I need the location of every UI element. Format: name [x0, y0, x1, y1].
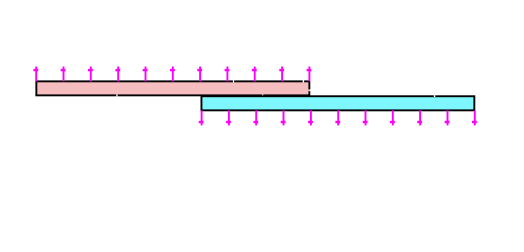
plate P1 (pink slab, upper left) [36, 81, 309, 95]
up arrow 7 [197, 67, 202, 82]
down arrow 2 [226, 110, 231, 125]
down arrow 3 [253, 110, 258, 125]
down arrow 4 [281, 110, 286, 125]
down arrow 9 [417, 110, 422, 125]
down arrow 11 [472, 110, 477, 125]
up arrow 3 [88, 67, 93, 82]
down arrow 7 [363, 110, 368, 125]
up arrow 6 [170, 67, 175, 82]
distributed load arrows (up) on plate P1 [33, 67, 311, 82]
down arrow 1 [199, 110, 204, 125]
up arrow 11 [307, 67, 312, 82]
distributed load arrows (down) on plate P2 [199, 110, 477, 125]
up arrow 9 [252, 67, 257, 82]
up arrow 8 [225, 67, 230, 82]
border gap artifacts [116, 80, 435, 97]
down arrow 10 [445, 110, 450, 125]
down arrow 6 [335, 110, 340, 125]
plate P2 (cyan slab, lower right) [201, 96, 474, 110]
up arrow 10 [279, 67, 284, 82]
down arrow 8 [390, 110, 395, 125]
down arrow 5 [308, 110, 313, 125]
up arrow 1 [33, 67, 38, 82]
up arrow 4 [115, 67, 120, 82]
up arrow 5 [143, 67, 148, 82]
up arrow 2 [61, 67, 66, 82]
